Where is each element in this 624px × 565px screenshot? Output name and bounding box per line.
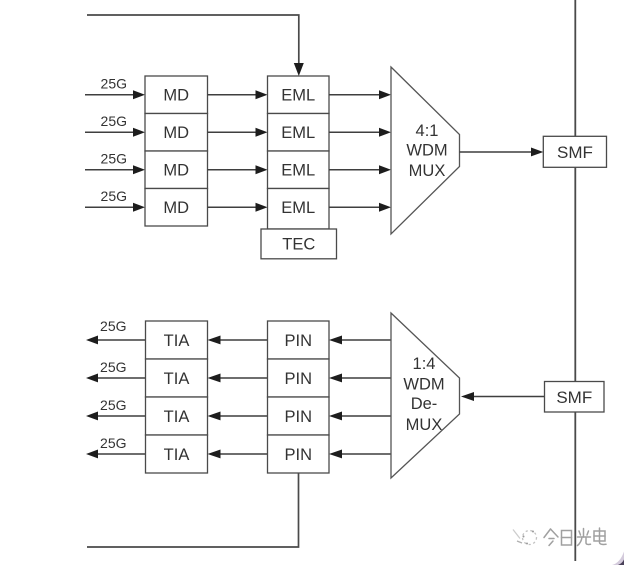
svg-text:25G: 25G xyxy=(100,397,126,413)
svg-text:MD: MD xyxy=(163,124,189,142)
svg-text:EML: EML xyxy=(281,87,315,105)
svg-text:PIN: PIN xyxy=(284,408,312,426)
svg-text:25G: 25G xyxy=(101,113,127,129)
svg-text:PIN: PIN xyxy=(284,446,312,464)
svg-text:1:4: 1:4 xyxy=(413,355,436,373)
svg-text:TEC: TEC xyxy=(282,236,315,254)
svg-text:MUX: MUX xyxy=(406,416,443,434)
svg-text:TIA: TIA xyxy=(164,408,190,426)
svg-text:4:1: 4:1 xyxy=(416,122,439,140)
svg-text:MD: MD xyxy=(163,87,189,105)
svg-text:TIA: TIA xyxy=(164,446,190,464)
svg-text:SMF: SMF xyxy=(556,388,592,407)
svg-text:EML: EML xyxy=(281,124,315,142)
svg-text:TIA: TIA xyxy=(164,332,190,350)
svg-text:25G: 25G xyxy=(100,359,126,375)
svg-text:PIN: PIN xyxy=(284,370,312,388)
svg-text:PIN: PIN xyxy=(284,332,312,350)
svg-text:De-: De- xyxy=(411,395,438,413)
svg-text:SMF: SMF xyxy=(557,143,593,162)
svg-text:MD: MD xyxy=(163,162,189,180)
svg-text:25G: 25G xyxy=(100,435,126,451)
svg-text:TIA: TIA xyxy=(164,370,190,388)
svg-text:25G: 25G xyxy=(101,75,127,91)
svg-text:25G: 25G xyxy=(100,318,126,334)
svg-text:EML: EML xyxy=(281,199,315,217)
svg-text:MD: MD xyxy=(163,199,189,217)
svg-text:25G: 25G xyxy=(101,150,127,166)
svg-text:WDM: WDM xyxy=(406,141,447,159)
svg-text:25G: 25G xyxy=(101,188,127,204)
svg-text:MUX: MUX xyxy=(409,162,446,180)
svg-text:EML: EML xyxy=(281,162,315,180)
svg-text:WDM: WDM xyxy=(403,375,444,393)
